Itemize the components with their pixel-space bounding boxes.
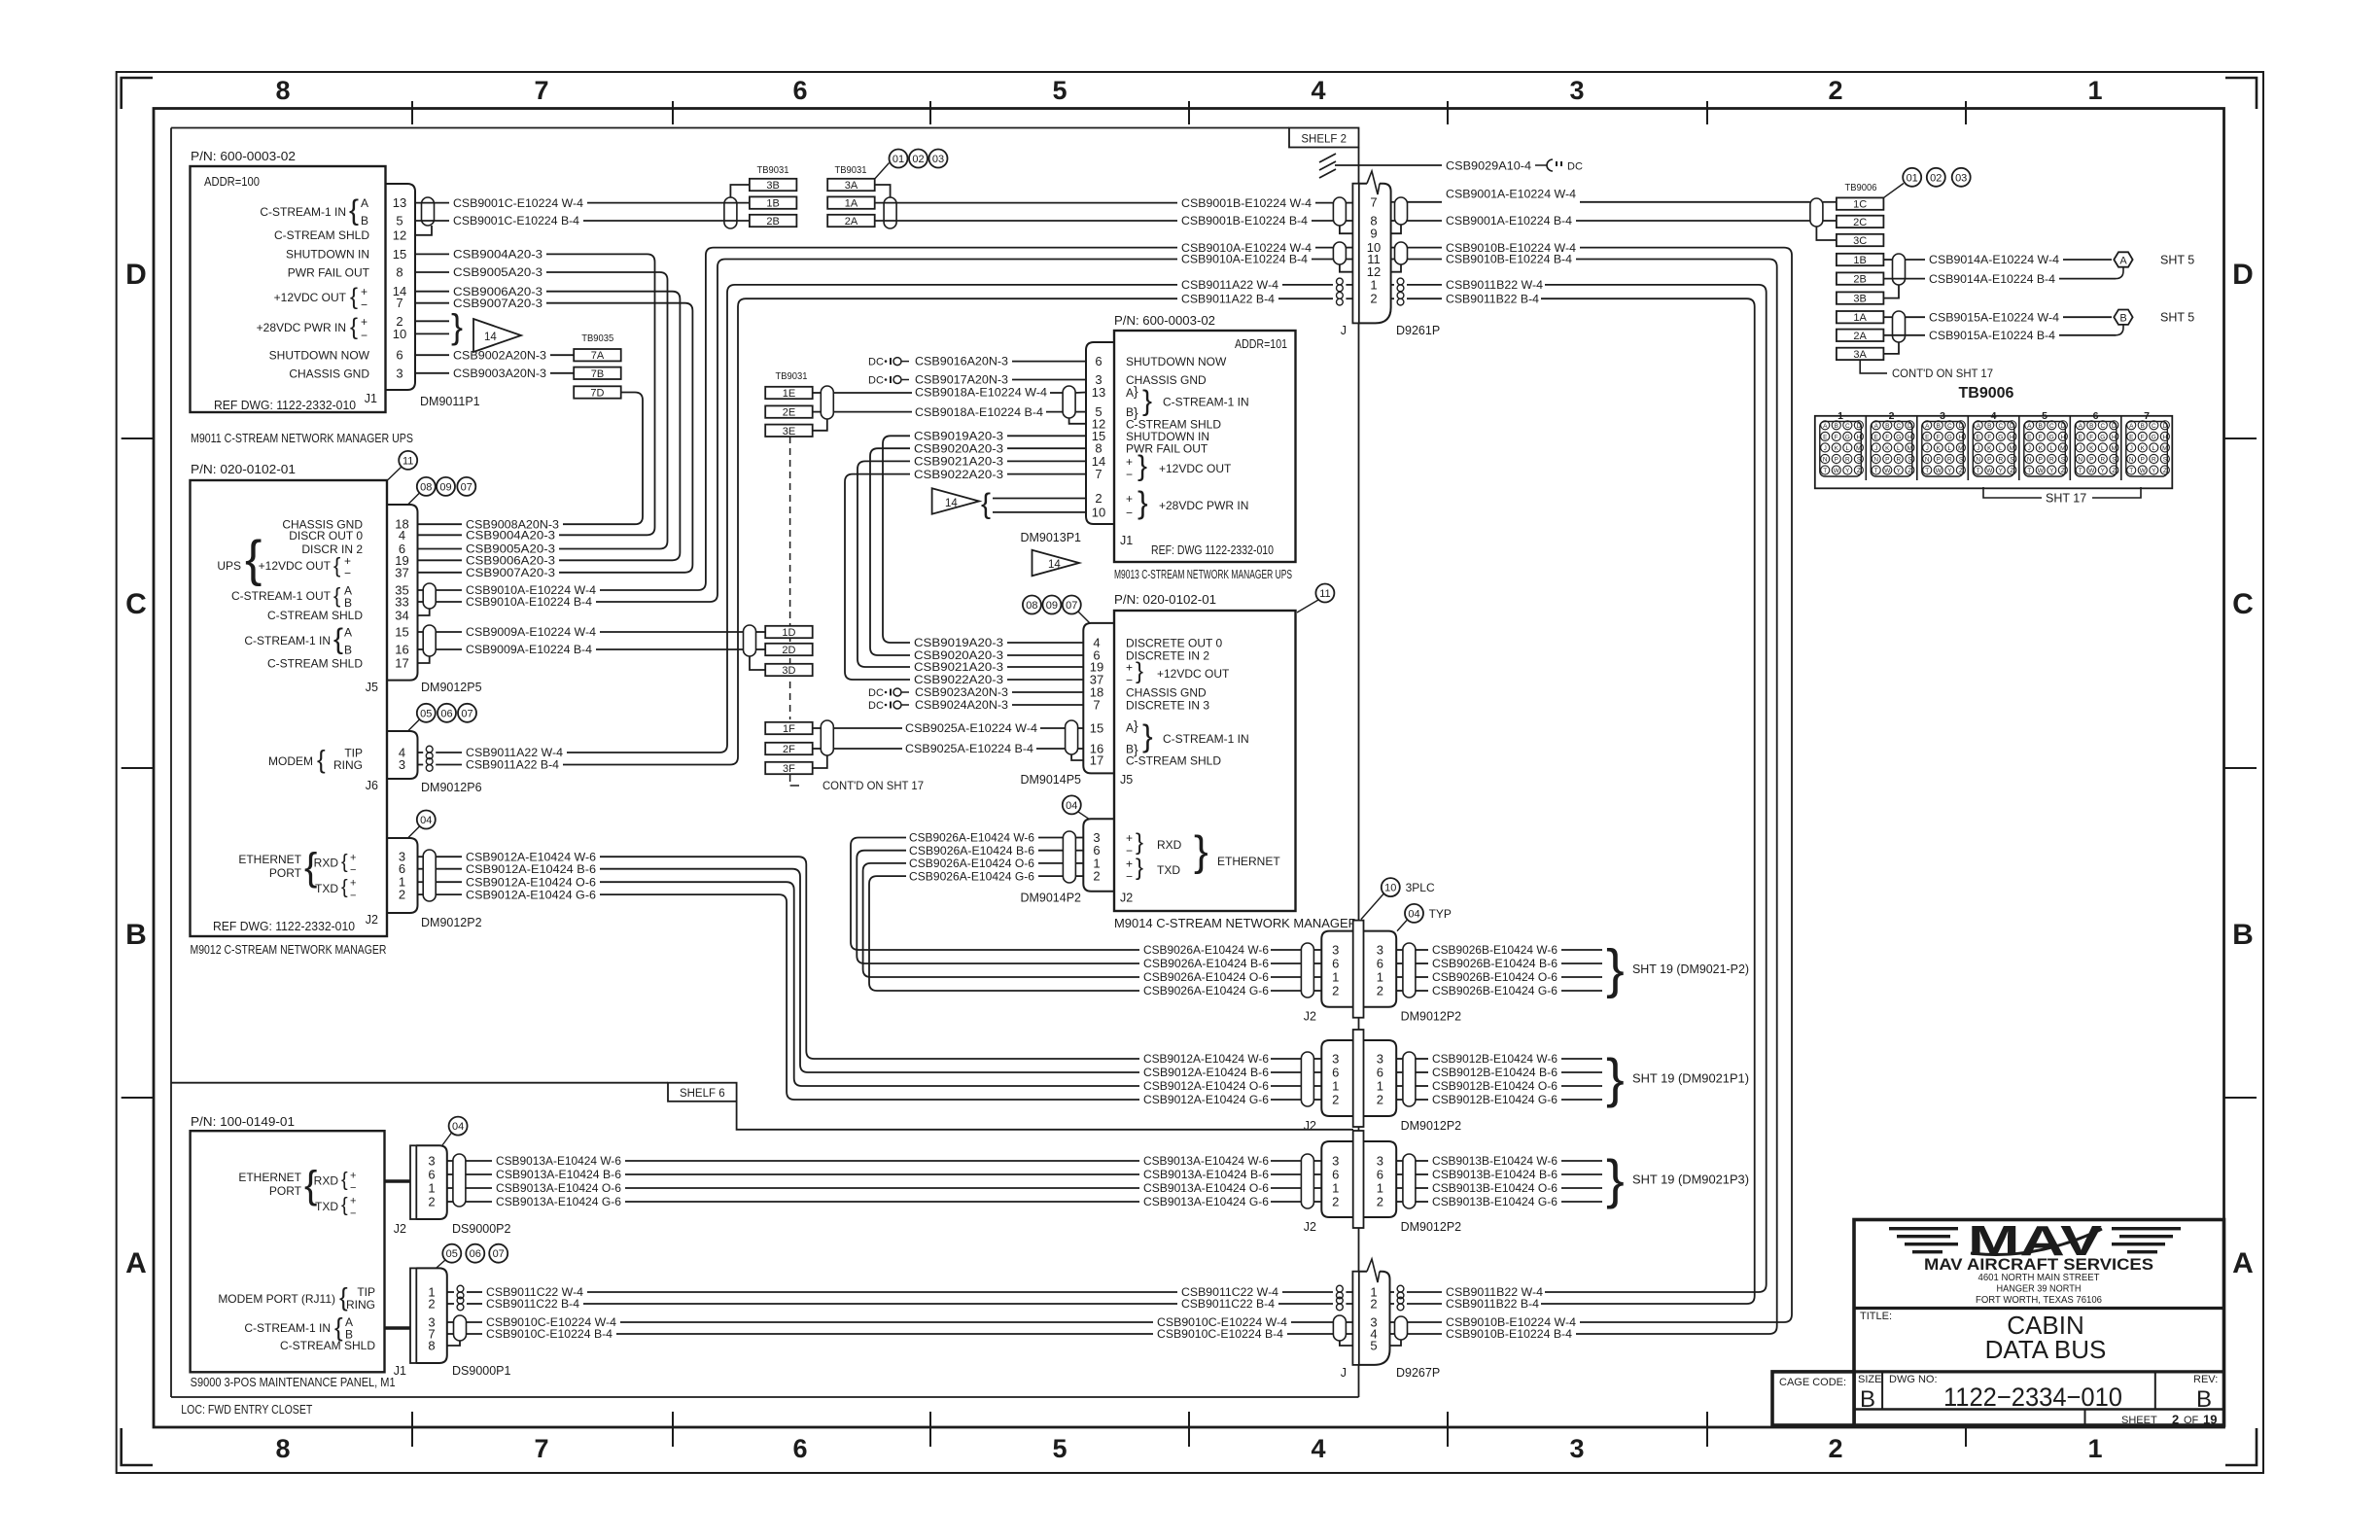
svg-text:C: C bbox=[1947, 423, 1952, 430]
svg-text:5: 5 bbox=[2042, 410, 2047, 422]
svg-text:33: 33 bbox=[395, 595, 408, 610]
svg-text:{: { bbox=[350, 314, 358, 340]
svg-text:K: K bbox=[1987, 445, 1992, 452]
svg-text:A: A bbox=[361, 196, 368, 210]
wire CSB9010A-E10224 B-4 (M9012 pin33 to D9261P pin11) bbox=[418, 601, 423, 603]
svg-text:6: 6 bbox=[792, 1434, 807, 1463]
svg-text:}: } bbox=[1134, 717, 1138, 733]
svg-text:2: 2 bbox=[428, 1297, 435, 1312]
shield stub D9267P pin 5 right bbox=[1390, 1340, 1402, 1346]
svg-text:L: L bbox=[1846, 445, 1850, 452]
svg-text:+: + bbox=[1126, 857, 1133, 870]
svg-text:CSB9019A20-3: CSB9019A20-3 bbox=[914, 430, 1003, 443]
connector J1 bracket of M9011 bbox=[386, 184, 416, 390]
svg-text:2: 2 bbox=[399, 888, 405, 902]
wire CSB9010C-E10224 W-4 (S9000 J1 to D9267P pin3) bbox=[447, 1321, 454, 1323]
wire CSB9026A-E10424 W-6 (M9014 J2 to DM9012P2) bbox=[1075, 837, 1083, 839]
svg-text:CSB9026B-E10424 W-6: CSB9026B-E10424 W-6 bbox=[1432, 943, 1557, 957]
svg-text:SHELF 2: SHELF 2 bbox=[1301, 134, 1347, 146]
svg-text:J: J bbox=[1341, 324, 1347, 337]
svg-text:CSB9026A-E10424 W-6: CSB9026A-E10424 W-6 bbox=[1143, 943, 1269, 957]
svg-text:B: B bbox=[2232, 919, 2254, 951]
callout circles 05 06 07 at M9012 J6 bbox=[417, 704, 436, 722]
TB9006 grid cell 4 bbox=[1967, 416, 1969, 480]
svg-text:P: P bbox=[2089, 457, 2093, 464]
terminal TB9006 3C bbox=[1837, 234, 1884, 246]
terminal TB9031 1B bbox=[750, 196, 797, 208]
svg-text:SHT 5: SHT 5 bbox=[2160, 254, 2194, 267]
svg-text:11: 11 bbox=[402, 455, 413, 467]
svg-text:{: { bbox=[349, 194, 359, 227]
svg-text:ADDR=100: ADDR=100 bbox=[204, 175, 260, 189]
svg-text:4: 4 bbox=[1311, 1434, 1325, 1463]
svg-text:OF: OF bbox=[2184, 1415, 2199, 1426]
wire CSB9015A-E10224 B-4 bbox=[1883, 334, 1925, 336]
svg-text:13: 13 bbox=[1092, 385, 1105, 400]
wire CSB9004A20-3 (M9011 to M9012) bbox=[415, 253, 449, 255]
svg-text:06: 06 bbox=[470, 1248, 481, 1260]
wires pass TB9031 1D 2D bbox=[756, 631, 766, 633]
svg-text:A: A bbox=[125, 1247, 147, 1279]
svg-text:10: 10 bbox=[393, 327, 406, 341]
svg-text:{: { bbox=[333, 553, 340, 577]
svg-text:CSB9022A20-3: CSB9022A20-3 bbox=[914, 673, 1003, 686]
svg-text:S: S bbox=[2112, 457, 2116, 464]
svg-text:T: T bbox=[2129, 468, 2133, 474]
svg-text:07: 07 bbox=[461, 708, 472, 719]
rev cell bbox=[2154, 1372, 2156, 1410]
zone tick bottom bbox=[929, 1412, 931, 1447]
svg-text:CSB9015A-E10224 B-4: CSB9015A-E10224 B-4 bbox=[1929, 329, 2055, 342]
svg-text:6: 6 bbox=[1377, 1168, 1383, 1182]
svg-text:}: } bbox=[1606, 1148, 1625, 1209]
svg-text:C-STREAM-1 OUT: C-STREAM-1 OUT bbox=[231, 589, 332, 603]
svg-text:01: 01 bbox=[892, 154, 904, 165]
svg-text:CSB9001B-E10224 B-4: CSB9001B-E10224 B-4 bbox=[1181, 214, 1308, 227]
connector pair DM9021P3 left shield capsule bbox=[1301, 1154, 1313, 1208]
note cont'd on sht 17 at TB9031 3F bbox=[790, 785, 799, 787]
svg-text:05: 05 bbox=[420, 708, 432, 719]
svg-text:CSB9013A-E10424 G-6: CSB9013A-E10424 G-6 bbox=[496, 1195, 621, 1208]
svg-text:DC: DC bbox=[868, 375, 884, 387]
svg-text:−: − bbox=[1126, 468, 1133, 481]
svg-text:J: J bbox=[1824, 445, 1827, 452]
svg-text:CSB9001B-E10224 W-4: CSB9001B-E10224 W-4 bbox=[1181, 196, 1312, 210]
svg-text:D: D bbox=[2163, 423, 2168, 430]
svg-text:04: 04 bbox=[1066, 800, 1077, 812]
svg-text:{: { bbox=[245, 531, 262, 587]
svg-text:P/N: 600-0003-02: P/N: 600-0003-02 bbox=[191, 150, 296, 163]
wire CSB9012B-E10424 G-6 bbox=[1396, 1099, 1403, 1101]
svg-text:CSB9009A-E10224 B-4: CSB9009A-E10224 B-4 bbox=[466, 643, 592, 656]
svg-text:J: J bbox=[1341, 1366, 1347, 1380]
svg-text:D: D bbox=[125, 259, 147, 291]
svg-text:2B: 2B bbox=[766, 216, 779, 227]
terminal TB9035 7B bbox=[574, 367, 621, 379]
zone tick bottom bbox=[411, 1412, 413, 1447]
svg-text:06: 06 bbox=[440, 708, 452, 719]
svg-text:CSB9029A10-4: CSB9029A10-4 bbox=[1446, 159, 1531, 173]
wire CSB9003A20N-3 (M9011 pin3 to TB9035 7B) bbox=[415, 372, 449, 374]
svg-text:E: E bbox=[2129, 435, 2133, 441]
connector pair DM9021P1 DM9012P2 plug body bbox=[1364, 1040, 1397, 1116]
svg-text:37: 37 bbox=[395, 565, 408, 579]
wire CSB9012A-E10424 W-6 (M9012 J2 to DM9012P2) bbox=[418, 856, 424, 857]
zone tick bottom bbox=[1447, 1412, 1449, 1447]
svg-text:6: 6 bbox=[1332, 1066, 1339, 1080]
svg-text:7: 7 bbox=[1370, 194, 1377, 209]
svg-text:{: { bbox=[333, 583, 340, 608]
wire CSB9013B-E10424 O-6 bbox=[1396, 1187, 1403, 1189]
connector D9261P plug body bbox=[1359, 184, 1391, 324]
svg-text:2A: 2A bbox=[1853, 331, 1867, 342]
svg-text:J2: J2 bbox=[394, 1222, 406, 1236]
zone tick bottom bbox=[1188, 1412, 1190, 1447]
svg-text:{: { bbox=[317, 745, 326, 774]
connector pair DM9021P3 J2 receptacle body bbox=[1321, 1141, 1352, 1217]
svg-text:P: P bbox=[1987, 457, 1991, 464]
svg-text:8: 8 bbox=[275, 76, 290, 105]
svg-text:G: G bbox=[1845, 435, 1850, 441]
svg-text:{: { bbox=[341, 1170, 348, 1191]
svg-text:DC: DC bbox=[1567, 161, 1583, 173]
svg-text:Y: Y bbox=[1845, 468, 1850, 474]
svg-text:CSB9010B-E10224 B-4: CSB9010B-E10224 B-4 bbox=[1446, 253, 1572, 266]
svg-text:CSB9020A20-3: CSB9020A20-3 bbox=[914, 441, 1003, 455]
wire CSB9022A20-3 (M9013 to M9014) bbox=[1007, 473, 1086, 475]
svg-text:P/N: 020-0102-01: P/N: 020-0102-01 bbox=[191, 463, 296, 476]
terminal TB9031 3D bbox=[765, 664, 813, 676]
terminal TB9031 2E bbox=[765, 405, 813, 417]
svg-text:N: N bbox=[1823, 457, 1828, 464]
SHELF 6 label box bbox=[668, 1083, 737, 1102]
svg-text:CSB9013A-E10424 G-6: CSB9013A-E10424 G-6 bbox=[1143, 1195, 1269, 1208]
svg-text:D: D bbox=[1907, 423, 1912, 430]
svg-text:+12VDC OUT: +12VDC OUT bbox=[274, 291, 347, 304]
connector pair DM9021-P2 J2 receptacle body bbox=[1321, 931, 1352, 1007]
svg-text:K: K bbox=[2039, 445, 2044, 452]
wire CSB9026A-E10424 O-6 (M9014 J2 to DM9012P2) bbox=[1075, 862, 1083, 864]
svg-text:SHT 17: SHT 17 bbox=[2046, 492, 2086, 506]
wire CSB9011B22 W-4 (D9261P pin1 to D9267P pin1) bbox=[1391, 284, 1394, 286]
svg-text:J: J bbox=[1977, 445, 1979, 452]
svg-text:Z: Z bbox=[1907, 468, 1911, 474]
svg-text:DM9014P2: DM9014P2 bbox=[1020, 892, 1081, 905]
connector DS9000P1 plug body bbox=[416, 1268, 447, 1363]
shield capsule at TB9006 1A/2A bbox=[1893, 311, 1906, 342]
svg-text:R: R bbox=[1947, 457, 1952, 464]
svg-text:CSB9011A22 B-4: CSB9011A22 B-4 bbox=[466, 758, 559, 772]
svg-text:TXD: TXD bbox=[315, 882, 338, 895]
svg-text:3F: 3F bbox=[783, 763, 795, 775]
callout circle 11 at M9012 bbox=[399, 451, 417, 470]
svg-text:A: A bbox=[1126, 386, 1134, 400]
svg-text:H: H bbox=[2061, 435, 2066, 441]
svg-text:N: N bbox=[1925, 457, 1930, 464]
svg-text:C: C bbox=[2152, 423, 2156, 430]
svg-text:M: M bbox=[2010, 445, 2014, 452]
svg-text:M9014 C-STREAM NETWORK MANAGER: M9014 C-STREAM NETWORK MANAGER bbox=[1114, 917, 1357, 930]
structure ground symbol bbox=[1319, 154, 1336, 178]
shield capsule near TB9006 1C/2C bbox=[1810, 198, 1823, 227]
svg-text:+: + bbox=[350, 878, 356, 890]
svg-text:DM9012P2: DM9012P2 bbox=[421, 916, 482, 929]
svg-text:5: 5 bbox=[1052, 1434, 1067, 1463]
svg-text:B: B bbox=[2039, 423, 2043, 430]
svg-text:S: S bbox=[2010, 457, 2013, 464]
svg-text:CSB9010C-E10224 B-4: CSB9010C-E10224 B-4 bbox=[1157, 1327, 1283, 1341]
svg-text:B: B bbox=[125, 919, 147, 951]
svg-text:C-STREAM SHLD: C-STREAM SHLD bbox=[1126, 754, 1221, 768]
svg-text:A: A bbox=[2232, 1247, 2254, 1279]
svg-text:REV:: REV: bbox=[2193, 1374, 2218, 1385]
connector pair DM9021P1 left shield capsule bbox=[1301, 1052, 1313, 1106]
svg-text:M9011 C-STREAM NETWORK MANAGER: M9011 C-STREAM NETWORK MANAGER UPS bbox=[191, 432, 413, 445]
svg-text:C-STREAM SHLD: C-STREAM SHLD bbox=[267, 609, 363, 622]
svg-text:J5: J5 bbox=[366, 681, 378, 694]
svg-text:B: B bbox=[344, 596, 352, 610]
wire CSB9011C22 W-4 (S9000 J1 to D9267P pin1) bbox=[447, 1291, 454, 1293]
svg-text:6: 6 bbox=[396, 348, 402, 363]
svg-text:TXD: TXD bbox=[315, 1200, 338, 1213]
svg-text:DISCRETE IN 3: DISCRETE IN 3 bbox=[1126, 699, 1209, 713]
svg-text:04: 04 bbox=[1408, 908, 1419, 920]
svg-text:SHT 19 (DM9021-P2): SHT 19 (DM9021-P2) bbox=[1632, 962, 1749, 976]
shield capsule at D9261P pins 7/8 bbox=[1333, 197, 1346, 226]
connector pair DM9021-P2 right shield capsule bbox=[1403, 943, 1416, 997]
svg-text:B: B bbox=[2119, 313, 2126, 325]
svg-text:17: 17 bbox=[1090, 753, 1103, 768]
svg-text:}: } bbox=[451, 306, 463, 346]
svg-text:04: 04 bbox=[420, 815, 432, 826]
svg-text:3: 3 bbox=[1332, 1154, 1339, 1169]
wire CSB9015A-E10224 W-4 bbox=[1906, 316, 1926, 318]
svg-text:SHUTDOWN IN: SHUTDOWN IN bbox=[286, 248, 369, 262]
wire CSB9012B-E10424 O-6 bbox=[1396, 1085, 1403, 1087]
connector D9267P plug body bbox=[1359, 1272, 1390, 1365]
svg-text:B: B bbox=[1937, 423, 1941, 430]
svg-text:2D: 2D bbox=[782, 645, 795, 656]
svg-text:DC: DC bbox=[868, 700, 884, 712]
wire CSB9020A20-3 (M9013 to M9014) bbox=[1007, 447, 1086, 449]
svg-text:CSB9012A-E10424 G-6: CSB9012A-E10424 G-6 bbox=[1143, 1093, 1269, 1106]
wire CSB9026B-E10424 O-6 bbox=[1396, 976, 1403, 978]
svg-text:07: 07 bbox=[1066, 600, 1077, 612]
svg-text:R: R bbox=[2100, 457, 2105, 464]
callout leader to TB9006 1C bbox=[1883, 184, 1904, 198]
svg-text:W: W bbox=[1834, 468, 1840, 474]
svg-text:CSB9004A20-3: CSB9004A20-3 bbox=[453, 248, 542, 262]
svg-text:+: + bbox=[350, 1196, 356, 1207]
terminal TB9031 2A bbox=[827, 215, 875, 227]
wire CSB9021A20-3 (M9013 to M9014) bbox=[1007, 460, 1086, 462]
svg-text:1: 1 bbox=[1377, 970, 1383, 985]
svg-text:M9013 C-STREAM NETWORK MANAGER: M9013 C-STREAM NETWORK MANAGER UPS bbox=[1114, 568, 1292, 581]
wire CSB9011C22 B-4 (S9000 J1 to D9267P pin2) bbox=[447, 1303, 454, 1305]
svg-text:CONT'D ON SHT 17: CONT'D ON SHT 17 bbox=[822, 779, 924, 792]
shield wire to TB9031 3F bbox=[813, 755, 827, 768]
svg-text:1: 1 bbox=[1332, 970, 1339, 985]
svg-text:2A: 2A bbox=[845, 216, 858, 227]
svg-text:2: 2 bbox=[1332, 1195, 1339, 1209]
svg-text:A: A bbox=[1126, 721, 1134, 735]
shield wire to TB9006 3C bbox=[1816, 227, 1837, 240]
svg-text:+: + bbox=[1126, 661, 1133, 675]
wire CSB9008A20N-3 (TB9035 7D to M9012 pin18) bbox=[563, 393, 643, 525]
connector pair DM9021P1 right shield capsule bbox=[1403, 1052, 1416, 1106]
svg-text:PORT: PORT bbox=[269, 866, 302, 880]
svg-text:03: 03 bbox=[1955, 172, 1967, 184]
svg-text:F: F bbox=[2141, 435, 2145, 441]
wire CSB9001A-E10224 B-4 bbox=[1391, 220, 1395, 222]
TB9006 grid outline bbox=[1815, 416, 2173, 489]
wire CSB9013A-E10424 B-6 (S9000 J2 to DM9012P3) bbox=[447, 1173, 453, 1175]
svg-text:C-STREAM-1 IN: C-STREAM-1 IN bbox=[244, 634, 331, 647]
wire CSB9018A-E10224 B-4 (TB9031 2E to M9013 pin5) bbox=[813, 411, 822, 413]
wire CSB9014A-E10224 W-4 bbox=[1906, 259, 1926, 261]
svg-text:CHASSIS GND: CHASSIS GND bbox=[289, 367, 369, 380]
terminal TB9031 3B bbox=[750, 179, 797, 191]
svg-text:3C: 3C bbox=[1853, 235, 1867, 247]
triangle symbol 14 DM9013P1 bbox=[1032, 550, 1080, 577]
svg-text:CAGE CODE:: CAGE CODE: bbox=[1779, 1377, 1846, 1388]
svg-text:14: 14 bbox=[484, 332, 497, 343]
svg-text:H: H bbox=[2163, 435, 2168, 441]
svg-text:REF DWG: 1122-2332-010: REF DWG: 1122-2332-010 bbox=[214, 399, 356, 412]
svg-text:1: 1 bbox=[1370, 277, 1377, 292]
svg-text:09: 09 bbox=[439, 481, 451, 493]
svg-text:}: } bbox=[1137, 450, 1147, 482]
svg-text:DATA BUS: DATA BUS bbox=[1985, 1335, 2107, 1364]
svg-text:6: 6 bbox=[792, 76, 807, 105]
svg-text:C-STREAM-1 IN: C-STREAM-1 IN bbox=[260, 205, 346, 219]
svg-text:6: 6 bbox=[428, 1168, 435, 1182]
connector DS9000P2 jack rail bbox=[410, 1145, 416, 1219]
svg-text:CSB9011C22 B-4: CSB9011C22 B-4 bbox=[486, 1297, 579, 1311]
shield stub M9012 pin 34 bbox=[418, 609, 430, 615]
svg-text:UPS: UPS bbox=[217, 559, 241, 573]
svg-text:J2: J2 bbox=[1304, 1220, 1316, 1234]
svg-text:M: M bbox=[1907, 445, 1912, 452]
note cont'd on sht 17 at TB9006 3A bbox=[1860, 360, 1887, 373]
svg-text:D: D bbox=[2112, 423, 2117, 430]
svg-text:C: C bbox=[1998, 423, 2003, 430]
svg-text:C: C bbox=[125, 588, 147, 620]
terminal TB9006 2B bbox=[1837, 272, 1884, 284]
wire CSB9012B-E10424 W-6 bbox=[1396, 1058, 1403, 1060]
svg-text:2: 2 bbox=[1828, 1434, 1842, 1463]
svg-text:R: R bbox=[1998, 457, 2003, 464]
svg-text:Z: Z bbox=[2163, 468, 2167, 474]
connector pair DM9021P3 right shield capsule bbox=[1403, 1154, 1416, 1208]
corner trim tick top-right bbox=[2225, 78, 2257, 109]
size cell bbox=[1881, 1372, 1883, 1410]
zone tick top bbox=[1188, 101, 1190, 124]
svg-text:S9000 3-POS MAINTENANCE PANEL,: S9000 3-POS MAINTENANCE PANEL, M1 bbox=[191, 1376, 396, 1389]
svg-text:19: 19 bbox=[2203, 1413, 2217, 1427]
svg-text:CSB9013A-E10424 O-6: CSB9013A-E10424 O-6 bbox=[1143, 1181, 1269, 1195]
svg-text:1: 1 bbox=[428, 1181, 435, 1196]
connector D9267P break mark bbox=[1367, 1259, 1380, 1282]
svg-text:J1: J1 bbox=[394, 1364, 406, 1378]
svg-text:CSB9018A-E10224 B-4: CSB9018A-E10224 B-4 bbox=[915, 405, 1043, 419]
terminal TB9031 2F bbox=[765, 743, 813, 754]
TB9006 grid cell 5 bbox=[2018, 416, 2020, 480]
svg-text:A: A bbox=[2027, 423, 2032, 430]
svg-text:2: 2 bbox=[1377, 1093, 1383, 1107]
svg-text:C: C bbox=[1845, 423, 1850, 430]
svg-text:W: W bbox=[1986, 468, 1993, 474]
terminal TB9006 1B bbox=[1837, 254, 1884, 265]
svg-text:D: D bbox=[1857, 423, 1862, 430]
shield capsule at M9011 pins 13/5 bbox=[422, 197, 435, 226]
callout leader to TB9031 3A bbox=[875, 163, 890, 180]
svg-text:CSB9005A20-3: CSB9005A20-3 bbox=[453, 265, 542, 279]
svg-text:CSB9001A-E10224 B-4: CSB9001A-E10224 B-4 bbox=[1446, 214, 1572, 227]
svg-text:RXD: RXD bbox=[314, 1174, 339, 1188]
terminal TB9031 3E bbox=[765, 425, 813, 437]
zone tick left bbox=[122, 437, 154, 439]
TB9006 grid cell 6 bbox=[2069, 416, 2071, 480]
svg-text:DM9011P1: DM9011P1 bbox=[420, 395, 480, 408]
terminal TB9031 2B bbox=[750, 215, 797, 227]
shield capsule at DS9000P2 bbox=[453, 1154, 466, 1207]
svg-text:4: 4 bbox=[1311, 76, 1325, 105]
TB9006 grid cell 2 bbox=[1865, 416, 1867, 480]
svg-text:ETHERNET: ETHERNET bbox=[1217, 855, 1280, 868]
svg-text:F: F bbox=[1937, 435, 1941, 441]
svg-text:14: 14 bbox=[1048, 559, 1061, 571]
title block cage code cell bbox=[1772, 1372, 1854, 1425]
svg-text:TB9031: TB9031 bbox=[835, 164, 867, 176]
svg-text:{: { bbox=[341, 852, 348, 873]
svg-text:E: E bbox=[1925, 435, 1929, 441]
svg-text:E: E bbox=[2027, 435, 2031, 441]
svg-text:W: W bbox=[2140, 468, 2147, 474]
shield capsule at D9261P pins 10/11 left bbox=[1333, 242, 1346, 264]
svg-text:J: J bbox=[2079, 445, 2082, 452]
svg-text:R: R bbox=[2152, 457, 2156, 464]
shield capsule right of TB9031 A group bbox=[884, 197, 896, 228]
svg-text:D: D bbox=[2061, 423, 2066, 430]
svg-text:Y: Y bbox=[2049, 468, 2054, 474]
svg-text:DM9012P6: DM9012P6 bbox=[421, 781, 482, 794]
terminal TB9035 7A bbox=[574, 349, 621, 361]
svg-text:1: 1 bbox=[2087, 1434, 2102, 1463]
svg-text:CSB9026A-E10424 B-6: CSB9026A-E10424 B-6 bbox=[909, 844, 1034, 857]
svg-text:A: A bbox=[1874, 423, 1879, 430]
svg-text:CSB9002A20N-3: CSB9002A20N-3 bbox=[453, 348, 546, 362]
svg-text:1: 1 bbox=[2087, 76, 2102, 105]
svg-text:CSB9010A-E10224 B-4: CSB9010A-E10224 B-4 bbox=[466, 595, 592, 609]
svg-text:B: B bbox=[361, 214, 368, 227]
svg-text:C-STREAM-1 IN: C-STREAM-1 IN bbox=[1163, 732, 1249, 746]
connector pair DM9021-P2 DM9012P2 plug body bbox=[1364, 931, 1397, 1007]
terminal TB9006 2C bbox=[1837, 216, 1884, 227]
svg-text:C: C bbox=[2100, 423, 2105, 430]
svg-text:MODEM PORT (RJ11): MODEM PORT (RJ11) bbox=[218, 1292, 335, 1306]
svg-text:S: S bbox=[2061, 457, 2065, 464]
svg-text:+: + bbox=[1126, 831, 1133, 845]
svg-text:TB9006: TB9006 bbox=[1845, 182, 1877, 193]
svg-text:6: 6 bbox=[1377, 1066, 1383, 1080]
svg-text:−: − bbox=[344, 566, 351, 579]
LOC boundary left edge bbox=[170, 128, 172, 1398]
svg-text:A: A bbox=[2079, 423, 2083, 430]
svg-text:3A: 3A bbox=[845, 180, 858, 192]
svg-text:Y: Y bbox=[1947, 468, 1952, 474]
svg-text:TB9035: TB9035 bbox=[581, 332, 613, 344]
